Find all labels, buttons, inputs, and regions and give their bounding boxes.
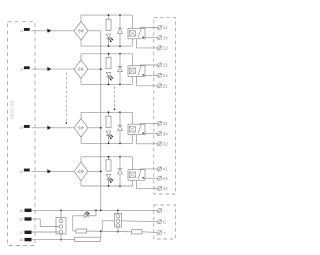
- wire channel 3 DC+ rail: [81, 112, 132, 118]
- wire S2 pin3 down: [117, 227, 119, 232]
- module Z1: [75, 237, 101, 241]
- terminal 34: [157, 131, 168, 136]
- relay K4: [128, 157, 145, 186]
- node channel 4 AC bus junction: [100, 171, 102, 173]
- terminal 32: [157, 141, 168, 146]
- supply terminal enclosure (bottom right dashed box): [154, 205, 176, 239]
- dashed link channel 2/3 inputs: [66, 73, 68, 124]
- wire channel 4 input: [32, 170, 75, 172]
- svg-text:44: 44: [163, 176, 169, 181]
- terminal 17: [19, 231, 31, 235]
- wire contact 41: [140, 168, 157, 170]
- wire contact 21: [140, 64, 157, 66]
- wire channel 2 DC+ rail: [81, 54, 132, 60]
- wire contact 44: [143, 177, 157, 179]
- diode V5 (flyback): [118, 15, 123, 46]
- node channel 2 rail junctions: [108, 53, 121, 85]
- wire S2 pin2 left: [102, 221, 114, 232]
- LED V4: [106, 175, 113, 186]
- terminal 12: [157, 46, 168, 51]
- terminal 11: [157, 25, 168, 30]
- node channel 1 rail junctions: [108, 14, 121, 47]
- svg-text:HR2D-US: HR2D-US: [10, 100, 15, 119]
- svg-text:12: 12: [163, 46, 169, 51]
- terminal 31: [157, 121, 168, 126]
- svg-text:18: 18: [19, 238, 23, 242]
- connector pin channel 2: [47, 67, 51, 71]
- wire contact 14: [143, 37, 157, 39]
- svg-text:+: +: [163, 230, 166, 235]
- terminal 41: [157, 167, 168, 172]
- bridge rectifier G3: [74, 119, 88, 138]
- terminal 15 (channel 3 input): [19, 125, 29, 130]
- wire channel 4 DC- rail: [81, 181, 132, 186]
- wire channel 4 AC return: [88, 170, 101, 172]
- resistor R3: [106, 112, 111, 127]
- relay K2: [128, 54, 145, 85]
- wire contact 24: [143, 74, 157, 76]
- wire AC return bus: [100, 31, 102, 210]
- module type label (rotated): [10, 100, 15, 119]
- wire channel 1 DC+ rail: [81, 15, 132, 21]
- bridge rectifier G2: [74, 60, 88, 79]
- wire channel 3 input: [32, 127, 75, 129]
- relay K3: [128, 112, 145, 143]
- terminal 20: [19, 217, 31, 221]
- connector S2 (right jumper block): [115, 214, 122, 228]
- svg-text:16: 16: [19, 170, 23, 174]
- wire channel 1 AC return: [88, 30, 101, 32]
- wire terminal 17 to S1 pin3: [32, 231, 60, 233]
- wire contact 32: [137, 135, 158, 144]
- terminal 42: [157, 186, 168, 191]
- resistor R5: [73, 229, 101, 233]
- wire S1 pin1: [60, 210, 62, 219]
- node channel 4 rail junctions: [108, 156, 121, 187]
- terminal 18: [19, 238, 31, 242]
- svg-text:34: 34: [163, 131, 169, 136]
- svg-text:17: 17: [19, 231, 23, 235]
- wire channel 3 DC- rail: [81, 137, 132, 143]
- socket enclosure (left dashed box): [8, 22, 36, 246]
- relay K1: [128, 15, 145, 46]
- terminal 16 (channel 4 input): [19, 169, 29, 174]
- wire channel 1 input: [32, 30, 75, 32]
- resistor R6: [132, 230, 158, 234]
- LED V2: [106, 72, 113, 84]
- svg-text:20: 20: [19, 218, 23, 222]
- terminal 19: [19, 209, 31, 213]
- svg-text:24: 24: [163, 73, 169, 78]
- LED V9 (supply indicator): [73, 210, 96, 217]
- connector pin channel 3: [47, 126, 51, 130]
- dashed link coil rails ch2-ch3: [114, 86, 116, 110]
- connector pin channel 1: [47, 29, 51, 33]
- wire contact 11: [140, 27, 157, 29]
- wire contact 34: [143, 133, 157, 135]
- wire S2 pin1: [117, 210, 119, 214]
- wire contact 42: [137, 180, 158, 188]
- terminal 44: [157, 176, 168, 181]
- svg-text:19: 19: [19, 209, 23, 213]
- svg-text:14: 14: [19, 68, 23, 72]
- svg-text:15: 15: [19, 126, 23, 130]
- svg-text:13: 13: [19, 29, 23, 33]
- diode V8 (flyback): [118, 157, 123, 186]
- terminal plus: [157, 230, 166, 235]
- terminal 13 (channel 1 input): [19, 28, 29, 33]
- bridge rectifier G4: [74, 162, 88, 181]
- wire channel 1 DC- rail: [81, 40, 132, 46]
- wire supply bus: [32, 209, 158, 211]
- terminal 14 (channel 2 input): [19, 66, 29, 71]
- bridge rectifier G1: [74, 22, 88, 41]
- terminal 24: [157, 73, 168, 78]
- wire S1 pin3 down: [60, 234, 62, 241]
- svg-text:42: 42: [163, 186, 169, 191]
- terminal 14: [157, 35, 168, 40]
- terminal 22: [157, 83, 168, 88]
- resistor R2: [106, 54, 111, 69]
- wire LED loop: [72, 216, 74, 231]
- node channel 3 rail junctions: [108, 111, 121, 144]
- svg-text:14: 14: [163, 35, 169, 40]
- resistor R4: [106, 157, 111, 171]
- wire terminal 20 to S1 pin2: [32, 219, 60, 227]
- wire contact 12: [137, 39, 158, 48]
- wire channel 2 DC- rail: [81, 78, 132, 84]
- wire plus line: [101, 230, 132, 233]
- svg-text:22: 22: [163, 84, 169, 89]
- svg-text:31: 31: [163, 121, 169, 126]
- resistor R1: [106, 15, 111, 30]
- node supply bus junctions: [60, 210, 119, 212]
- diode V6 (flyback): [118, 54, 123, 85]
- wire channel 2 AC return: [88, 68, 101, 70]
- wire contact 22: [137, 76, 158, 86]
- terminal 21: [157, 63, 168, 68]
- output terminal enclosure (right dashed box): [154, 17, 176, 194]
- wire contact 31: [140, 122, 157, 124]
- wire channel 2 input: [32, 68, 75, 70]
- svg-text:41: 41: [163, 167, 169, 172]
- svg-text:21: 21: [163, 63, 169, 68]
- connector S1 (left jumper block): [56, 218, 66, 235]
- terminal C: [157, 219, 167, 224]
- wire S2 pin2 to terminal C: [122, 220, 158, 223]
- diode V7 (flyback): [118, 112, 123, 143]
- connector pin channel 4: [47, 169, 51, 173]
- LED V3: [106, 131, 113, 143]
- wire Z1 to plus line: [100, 230, 102, 237]
- terminal minus: [157, 208, 165, 213]
- svg-text:11: 11: [163, 25, 168, 30]
- node channel 3 AC bus junction: [100, 127, 102, 129]
- node channel 2 AC bus junction: [100, 68, 102, 70]
- LED V1: [106, 34, 113, 46]
- wire channel 3 AC return: [88, 127, 101, 129]
- svg-text:32: 32: [163, 142, 169, 147]
- wire terminal 18 bus: [32, 239, 75, 241]
- wire channel 4 DC+ rail: [81, 157, 132, 162]
